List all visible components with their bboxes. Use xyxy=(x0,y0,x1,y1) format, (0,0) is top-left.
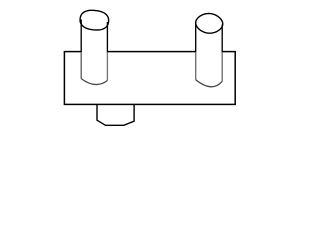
left pin top cap fill xyxy=(80,10,109,30)
left pin bottom arc xyxy=(81,79,107,85)
right pin right edge xyxy=(221,25,223,53)
right pin right edge lower (inside plate, lighter) xyxy=(221,52,223,81)
left pin right edge xyxy=(106,22,108,52)
left pin left edge lower (inside plate, lighter) xyxy=(80,52,82,78)
left pin left edge xyxy=(80,20,82,53)
bottom tab (protrusion below plate with chamfered bottom corners) xyxy=(97,105,134,126)
right pin bottom arc xyxy=(196,80,223,87)
right pin left edge xyxy=(195,22,197,52)
right pin body fill (occludes plate top edge) xyxy=(196,24,223,87)
left pin body fill (occludes plate top edge) xyxy=(81,24,107,85)
mounting plate (main rectangle) xyxy=(64,52,235,105)
right pin left edge lower (inside plate, lighter) xyxy=(195,52,197,80)
left pin right edge lower (inside plate, lighter) xyxy=(106,52,108,80)
left pin top ellipse outline xyxy=(80,10,109,30)
right pin top cap fill xyxy=(196,14,223,34)
right pin top ellipse outline xyxy=(196,14,223,34)
